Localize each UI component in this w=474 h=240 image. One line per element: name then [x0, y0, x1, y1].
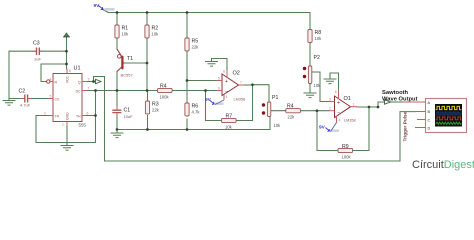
svg-text:2: 2: [44, 111, 46, 115]
wire C2 right to CV pin: [28, 98, 49, 100]
wire reset pin loop: [41, 64, 67, 82]
node C3 tap: [65, 50, 68, 53]
wire C3 left down to C2 ground node: [9, 51, 36, 98]
node O1 inv: [316, 109, 319, 112]
node Q out: [92, 80, 95, 83]
svg-text:4.7k: 4.7k: [192, 110, 201, 115]
svg-text:7: 7: [240, 81, 242, 85]
node T1 base / R2: [146, 62, 149, 65]
wire R2 bottom through base node down to DC line: [146, 38, 148, 91]
power arrow terminal (VCC): [63, 33, 70, 37]
svg-text:5: 5: [218, 77, 220, 81]
svg-text:P2: P2: [314, 55, 320, 61]
svg-text:R9: R9: [342, 144, 349, 150]
svg-text:7: 7: [88, 86, 90, 90]
wire O2 output node: [244, 84, 253, 86]
svg-text:C: C: [428, 118, 431, 122]
svg-text:Sawtooth: Sawtooth: [382, 90, 409, 96]
wire R3 top lead: [147, 91, 149, 102]
node bus-R1: [116, 11, 119, 14]
node bus-R2: [146, 11, 149, 14]
555 pin names: [55, 75, 82, 120]
node R3 gnd: [146, 128, 149, 131]
svg-text:3: 3: [88, 77, 90, 81]
svg-text:−: −: [337, 110, 340, 116]
wire top power bus: [109, 13, 311, 30]
svg-text:1: 1: [353, 102, 355, 106]
resistor R3: [145, 101, 159, 114]
svg-text:100k: 100k: [160, 95, 170, 100]
scope channel labels: [428, 101, 431, 130]
svg-text:U1: U1: [74, 66, 81, 72]
wire R5 bottom to divider node: [186, 51, 188, 81]
svg-text:4: 4: [226, 95, 228, 99]
resistor R8: [308, 30, 322, 43]
resistor R5: [185, 38, 199, 51]
wire P2 wiper down to O1 plus input: [312, 72, 329, 102]
svg-text:22k: 22k: [152, 108, 160, 113]
power terminal 9V (O2): [205, 97, 224, 105]
node bus-R5: [186, 11, 189, 14]
wire output to scope A: [391, 101, 404, 103]
555 pin numbers: [44, 69, 90, 127]
SECTION: junction dots: [65, 11, 379, 131]
svg-text:10k: 10k: [122, 32, 130, 37]
resistor R9: [338, 144, 353, 160]
wire R9 right lead up to output node: [353, 107, 370, 151]
wire Q loop up over to trigger vertical: [94, 77, 416, 162]
node C1 gnd: [116, 128, 119, 131]
node R7 left: [204, 89, 207, 92]
wire ground rail: [117, 117, 270, 130]
resistor R4 100k (horizontal): [158, 84, 173, 100]
svg-text:4.7uF: 4.7uF: [20, 103, 31, 108]
wire T1 collector down to DC node: [116, 72, 118, 91]
svg-text:P1: P1: [272, 95, 278, 101]
node terminal jog: [377, 106, 380, 109]
pointer terminal on Q output: [96, 79, 102, 83]
wire 555 gnd pin down: [66, 127, 68, 146]
resistor R1: [115, 25, 129, 38]
wire O2 gnd to top power pin: [212, 59, 228, 71]
wire C1 bottom lead: [116, 113, 118, 129]
ground (O2 top): [205, 59, 218, 66]
svg-text:10k: 10k: [274, 123, 282, 128]
svg-text:5: 5: [50, 94, 52, 98]
potentiometer P1: [262, 95, 281, 128]
wire C3 vcc vertical: [66, 37, 68, 69]
label Sawtooth Wave Output: [382, 90, 418, 102]
ground (P2): [304, 90, 317, 97]
wire TR-TH loop: [36, 116, 96, 143]
svg-text:CírcuitDigest: CírcuitDigest: [412, 159, 474, 171]
svg-text:DC: DC: [76, 89, 81, 93]
wire C1 top lead: [116, 91, 118, 110]
svg-text:O1: O1: [344, 96, 351, 102]
svg-text:C3: C3: [33, 41, 40, 47]
svg-text:555: 555: [79, 123, 87, 128]
node O1 out: [368, 106, 371, 109]
svg-text:9V: 9V: [319, 124, 326, 130]
svg-text:TR: TR: [55, 114, 60, 118]
output terminal arrow: [385, 100, 391, 104]
wire R8 bottom to P2 top: [309, 44, 311, 67]
svg-text:10k: 10k: [152, 32, 160, 37]
svg-text:8: 8: [335, 90, 337, 94]
power terminal 9V top-left: [94, 3, 115, 11]
oscilloscope: [403, 99, 467, 133]
wire P1 wiper to R4b: [271, 110, 286, 112]
svg-text:C1: C1: [124, 108, 131, 114]
wire R5 top lead: [186, 13, 188, 39]
svg-text:100k: 100k: [342, 155, 352, 160]
wire R3 bottom lead: [147, 116, 149, 130]
svg-text:Wave Output: Wave Output: [382, 96, 418, 102]
wire O1 output to terminal jog: [357, 102, 385, 107]
svg-text:9V: 9V: [205, 97, 212, 103]
wire top 9V diagonal: [103, 10, 109, 13]
resistor R2: [145, 25, 159, 38]
555 pin stubs: [49, 69, 88, 127]
wire R2 top lead: [146, 13, 148, 26]
scope pin stubs: [403, 102, 426, 128]
svg-text:10k: 10k: [315, 36, 323, 41]
capacitor C1: [112, 106, 133, 119]
svg-text:+: +: [337, 100, 340, 106]
logo CircuitDigest: [412, 159, 474, 171]
wire R4b to O1 inverting node: [300, 110, 328, 112]
svg-text:CV: CV: [55, 97, 60, 101]
op-amp O2 LM358: [217, 70, 245, 102]
wire R6 leads: [186, 81, 188, 104]
svg-text:TH: TH: [76, 114, 81, 118]
svg-text:Trigger Pulse: Trigger Pulse: [402, 111, 407, 141]
555 reset bubble: [47, 80, 50, 83]
svg-text:10k: 10k: [225, 125, 233, 130]
wire R1 bottom to T1 emitter: [116, 38, 118, 49]
svg-text:LM358: LM358: [344, 119, 356, 123]
wire DC-TH vertical: [95, 91, 97, 116]
wire P2 bottom to ground: [309, 84, 311, 93]
svg-text:T1: T1: [127, 56, 133, 62]
svg-text:4: 4: [50, 77, 52, 81]
node DC tap: [94, 89, 97, 92]
svg-text:+: +: [225, 79, 228, 85]
svg-text:VCC: VCC: [66, 75, 70, 83]
svg-text:6: 6: [87, 111, 89, 115]
node R5-R6 divider: [186, 79, 189, 82]
op-amp O1 LM358: [329, 90, 358, 123]
ground (C1): [111, 130, 124, 137]
wire R9 left lead: [317, 150, 338, 152]
svg-text:4: 4: [339, 118, 341, 122]
IC U1 555: [44, 66, 90, 128]
resistor R6: [185, 103, 200, 116]
svg-text:R7: R7: [226, 114, 233, 120]
ground (C2 / left): [3, 98, 16, 105]
svg-text:R4: R4: [287, 104, 294, 110]
wire O1 inverting node down to R9: [316, 111, 318, 151]
capacitor C3: [33, 41, 43, 62]
node reset tap: [65, 63, 68, 66]
svg-text:C2: C2: [19, 89, 26, 95]
potentiometer P2: [303, 55, 321, 88]
wire C2 left to ground: [9, 98, 24, 100]
svg-text:1uF: 1uF: [34, 57, 41, 62]
svg-text:3: 3: [329, 98, 331, 102]
node TH tap: [94, 114, 97, 117]
svg-text:2: 2: [329, 107, 331, 111]
wire T1 base to R2 column: [125, 62, 148, 64]
transistor T1 BC557: [117, 49, 134, 78]
svg-text:22k: 22k: [288, 115, 296, 120]
wire O2 feedback via R7: [237, 85, 253, 121]
svg-text:R4: R4: [160, 84, 167, 90]
node R2-R3-R4: [146, 89, 149, 92]
svg-text:LM358: LM358: [234, 98, 246, 102]
node C1 top: [116, 89, 119, 92]
svg-text:6: 6: [218, 87, 220, 91]
resistor R7: [222, 114, 237, 130]
svg-text:O2: O2: [233, 71, 240, 77]
svg-text:10uF: 10uF: [124, 114, 134, 119]
SECTION: wires: [9, 10, 416, 162]
svg-text:Q: Q: [78, 80, 81, 84]
svg-text:8: 8: [69, 69, 71, 73]
svg-text:22k: 22k: [192, 45, 200, 50]
power terminal 9V (O1): [319, 123, 339, 132]
ground (O1 top): [324, 76, 337, 83]
ground (555): [61, 143, 74, 150]
wire divider node to O2 plus input: [187, 80, 217, 82]
svg-text:GND: GND: [66, 112, 70, 120]
wire R1 top lead: [116, 13, 118, 26]
resistor R4 22k (horizontal): [286, 104, 301, 120]
svg-text:BC557: BC557: [121, 73, 134, 78]
node O2 out: [251, 83, 254, 86]
node R6 gnd: [186, 128, 189, 131]
wire O2 out node right then down to P1 top: [253, 85, 270, 102]
wire Q out to pointer: [87, 81, 95, 83]
wire C3 right to vcc column: [40, 50, 67, 52]
wire TH pin to loop: [86, 115, 96, 117]
capacitor C2: [19, 89, 32, 108]
wire DC line from 555 to O2 inverting input: [87, 90, 158, 92]
svg-text:10k: 10k: [314, 83, 322, 88]
scope traces: [436, 106, 465, 124]
svg-text:8: 8: [223, 70, 225, 74]
wire O1 gnd to top power pin: [330, 73, 339, 91]
svg-text:D: D: [428, 126, 431, 130]
svg-text:1: 1: [62, 123, 64, 127]
